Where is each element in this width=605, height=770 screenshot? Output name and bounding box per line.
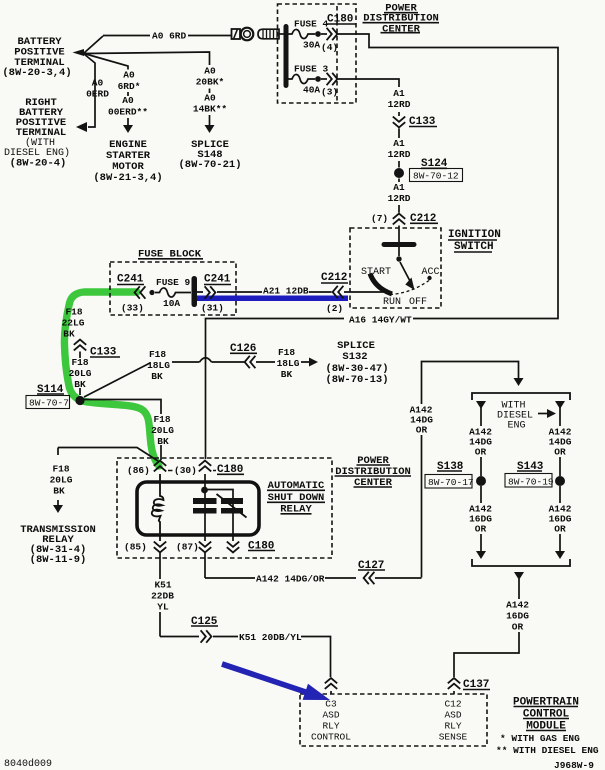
svg-text:K51 20DB/YL: K51 20DB/YL (239, 632, 302, 643)
svg-text:30A: 30A (303, 40, 320, 51)
svg-text:MODULE: MODULE (526, 721, 566, 733)
svg-text:F18: F18 (149, 349, 166, 360)
svg-text:** WITH DIESEL ENG: ** WITH DIESEL ENG (496, 745, 599, 756)
svg-text:J968W-9: J968W-9 (554, 760, 594, 770)
svg-text:12RD: 12RD (388, 99, 411, 110)
svg-text:ENG: ENG (507, 421, 525, 432)
svg-text:BK: BK (151, 371, 163, 382)
svg-text:8W-70-19: 8W-70-19 (508, 477, 554, 488)
svg-text:C133: C133 (409, 116, 436, 128)
svg-text:AUTOMATIC: AUTOMATIC (268, 480, 325, 492)
svg-text:CENTER: CENTER (382, 24, 421, 36)
svg-text:C126: C126 (230, 343, 256, 355)
svg-text:S143: S143 (517, 461, 544, 473)
svg-text:A0: A0 (123, 70, 135, 81)
svg-text:(7): (7) (371, 213, 388, 224)
svg-text:C133: C133 (90, 347, 117, 359)
svg-text:OR: OR (475, 524, 487, 535)
svg-text:F18: F18 (278, 347, 295, 358)
svg-text:CONTROL: CONTROL (523, 709, 570, 721)
svg-text:12RD: 12RD (388, 193, 411, 204)
svg-text:(8W-70-13): (8W-70-13) (325, 374, 388, 386)
svg-text:(87): (87) (176, 542, 199, 553)
svg-text:(8W-11-9): (8W-11-9) (30, 554, 87, 566)
svg-text:A0: A0 (92, 78, 104, 89)
svg-text:S138: S138 (437, 461, 464, 473)
svg-text:20LG: 20LG (50, 475, 73, 486)
svg-text:K51: K51 (154, 580, 171, 591)
svg-text:ASD: ASD (444, 710, 461, 721)
svg-text:BK: BK (157, 436, 169, 447)
svg-text:CENTER: CENTER (354, 477, 393, 489)
svg-text:SWITCH: SWITCH (454, 241, 494, 253)
svg-text:F18: F18 (153, 414, 170, 425)
svg-text:(8W-70-21): (8W-70-21) (178, 159, 241, 171)
svg-text:CONTROL: CONTROL (311, 732, 351, 743)
svg-text:14BK**: 14BK** (193, 104, 227, 115)
svg-text:A1: A1 (393, 88, 405, 99)
svg-text:A0: A0 (204, 93, 216, 104)
svg-text:OR: OR (512, 622, 524, 633)
svg-text:A0: A0 (204, 66, 216, 77)
svg-text:8W-70-12: 8W-70-12 (413, 171, 459, 182)
svg-text:C125: C125 (191, 616, 218, 628)
svg-text:A16 14GY/WT: A16 14GY/WT (349, 315, 412, 326)
svg-text:(3): (3) (321, 87, 338, 98)
svg-text:20BK*: 20BK* (196, 77, 225, 88)
svg-text:F18: F18 (65, 307, 82, 318)
svg-text:A21 12DB: A21 12DB (263, 286, 309, 297)
svg-text:18LG: 18LG (277, 358, 300, 369)
svg-text:C241: C241 (204, 274, 231, 286)
svg-text:BK: BK (281, 369, 293, 380)
svg-text:22DB: 22DB (151, 591, 174, 602)
svg-text:FUSE BLOCK: FUSE BLOCK (138, 249, 202, 261)
svg-text:(8W-20-3,4): (8W-20-3,4) (2, 67, 71, 79)
svg-text:BK: BK (63, 329, 75, 340)
svg-text:IGNITION: IGNITION (448, 229, 501, 241)
svg-text:(85): (85) (124, 542, 147, 553)
svg-text:C137: C137 (463, 679, 489, 691)
svg-text:POWERTRAIN: POWERTRAIN (513, 697, 579, 709)
svg-text:20LG: 20LG (69, 368, 92, 379)
svg-text:RUN: RUN (383, 297, 401, 308)
svg-text:20LG: 20LG (151, 425, 174, 436)
svg-text:FUSE 4: FUSE 4 (294, 19, 329, 30)
svg-text:RELAY: RELAY (280, 504, 312, 516)
svg-text:0ERD: 0ERD (86, 89, 109, 100)
svg-text:C180: C180 (248, 541, 274, 553)
svg-text:10A: 10A (163, 298, 180, 309)
svg-text:6RD*: 6RD* (118, 81, 141, 92)
svg-text:F18: F18 (52, 464, 69, 475)
svg-text:(8W-20-4): (8W-20-4) (10, 158, 67, 170)
svg-text:C127: C127 (358, 560, 384, 572)
svg-text:SENSE: SENSE (439, 732, 468, 743)
svg-text:S132: S132 (342, 351, 367, 363)
svg-text:BK: BK (74, 379, 86, 390)
svg-text:YL: YL (157, 602, 169, 613)
svg-text:16DG: 16DG (506, 611, 529, 622)
svg-text:40A: 40A (303, 85, 320, 96)
svg-text:12RD: 12RD (388, 149, 411, 160)
svg-text:A0: A0 (122, 95, 134, 106)
svg-text:S114: S114 (37, 384, 64, 396)
svg-text:(31): (31) (201, 303, 224, 314)
svg-text:C212: C212 (321, 272, 347, 284)
svg-text:A142: A142 (506, 600, 529, 611)
svg-text:(33): (33) (121, 303, 144, 314)
svg-text:RLY: RLY (322, 721, 339, 732)
svg-text:A1: A1 (393, 182, 405, 193)
svg-text:START: START (361, 267, 391, 278)
svg-text:C3: C3 (325, 699, 337, 710)
svg-text:A0 6RD: A0 6RD (152, 31, 187, 42)
svg-text:A142 14DG/OR: A142 14DG/OR (256, 574, 325, 585)
svg-text:8W-70-17: 8W-70-17 (428, 477, 474, 488)
svg-text:RLY: RLY (444, 721, 461, 732)
svg-text:FUSE 3: FUSE 3 (294, 64, 329, 75)
svg-text:OR: OR (416, 425, 428, 436)
svg-text:(30): (30) (174, 465, 197, 476)
svg-text:OR: OR (475, 447, 487, 458)
svg-text:* WITH GAS ENG: * WITH GAS ENG (500, 733, 580, 744)
svg-text:(8W-21-3,4): (8W-21-3,4) (93, 172, 162, 184)
svg-text:8040d009: 8040d009 (4, 758, 52, 770)
svg-text:ACC: ACC (422, 267, 440, 278)
svg-text:FUSE 9: FUSE 9 (156, 277, 191, 288)
svg-text:00ERD**: 00ERD** (108, 107, 148, 118)
svg-text:18LG: 18LG (147, 360, 170, 371)
svg-text:C12: C12 (444, 699, 461, 710)
svg-text:OR: OR (554, 447, 566, 458)
svg-text:C212: C212 (410, 213, 436, 225)
svg-text:S124: S124 (421, 158, 448, 170)
svg-text:C241: C241 (117, 274, 144, 286)
svg-text:ASD: ASD (322, 710, 339, 721)
svg-text:(4): (4) (321, 42, 338, 53)
svg-text:OR: OR (554, 524, 566, 535)
svg-text:C180: C180 (327, 14, 353, 26)
svg-text:F18: F18 (71, 357, 88, 368)
svg-text:(2): (2) (326, 303, 343, 314)
svg-text:A1: A1 (393, 138, 405, 149)
svg-text:SHUT DOWN: SHUT DOWN (268, 492, 325, 504)
svg-text:C180: C180 (217, 464, 243, 476)
svg-text:8W-70-7: 8W-70-7 (29, 398, 69, 409)
svg-text:BK: BK (53, 486, 65, 497)
svg-text:22LG: 22LG (62, 318, 85, 329)
svg-text:(86): (86) (127, 465, 150, 476)
svg-text:OFF: OFF (409, 297, 427, 308)
